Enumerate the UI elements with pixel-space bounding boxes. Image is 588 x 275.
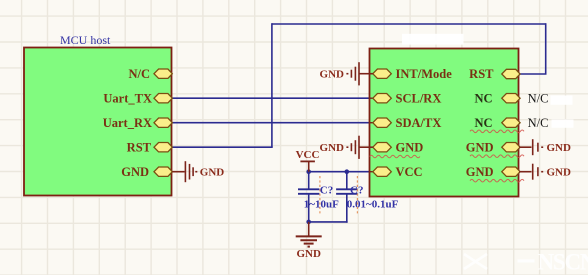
wire net RST: MCU RST pin to vertical	[172, 146, 273, 148]
svg-text:0.01~0.1uF: 0.01~0.1uF	[347, 199, 399, 211]
watermark X	[464, 254, 487, 269]
svg-text:N/C: N/C	[528, 92, 549, 106]
svg-text:GND: GND	[297, 248, 322, 260]
ground at U1 GND right 2	[519, 164, 571, 180]
ground at MCU GND pin	[172, 161, 196, 182]
ground at U1 GND left pin	[320, 136, 373, 159]
svg-text:GND: GND	[200, 167, 225, 179]
svg-text:N/C: N/C	[528, 116, 549, 130]
pin Uart_TX of MCU	[103, 91, 172, 105]
wire net RST: left vertical segment	[271, 23, 273, 147]
capacitor C? 2	[336, 176, 399, 215]
component MCU host block	[24, 33, 172, 196]
svg-text:VCC: VCC	[396, 165, 423, 179]
ground at U1 GND right 1	[519, 139, 571, 155]
wire C2 bottom lead	[346, 194, 348, 223]
wire bottom ground rail	[309, 221, 348, 223]
svg-text:NSCN: NSCN	[538, 250, 588, 275]
pin SCL/RX of U1	[370, 91, 442, 105]
svg-text:C?: C?	[350, 185, 363, 197]
svg-text:1~10uF: 1~10uF	[304, 199, 339, 211]
power port VCC	[296, 149, 320, 172]
wire net RST: right vertical segment	[545, 23, 547, 74]
ground at U1 INT/Mode pin	[320, 62, 373, 85]
svg-text:SDA/TX: SDA/TX	[396, 116, 442, 130]
component U1 sensor block	[370, 49, 519, 197]
ground below capacitors	[296, 222, 322, 260]
pin NC 2 of U1	[470, 116, 524, 133]
pin RST of MCU	[127, 140, 173, 154]
pin SDA/TX of U1	[370, 116, 442, 130]
capacitor C? 1	[298, 176, 339, 215]
svg-text:INT/Mode: INT/Mode	[396, 67, 453, 81]
wire net RST: top horizontal rail	[272, 23, 546, 25]
pin GND of MCU	[121, 165, 172, 179]
wire Uart_TX to SCL/RX	[172, 97, 371, 99]
pin VCC of U1	[370, 165, 423, 179]
svg-text:GND: GND	[396, 140, 424, 154]
svg-text:SCL/RX: SCL/RX	[396, 91, 442, 105]
wire C1 top lead	[308, 172, 310, 190]
white patch over U1 designator	[402, 34, 464, 45]
wire C1 bottom lead	[308, 194, 310, 222]
junction at VCC port	[306, 169, 311, 174]
svg-text:Uart_RX: Uart_RX	[103, 116, 152, 130]
pin N/C of MCU	[128, 67, 172, 81]
junction at ground rail	[306, 220, 311, 225]
pin GND left of U1	[370, 140, 424, 157]
svg-text:RST: RST	[127, 140, 152, 154]
svg-text:GND: GND	[547, 166, 572, 178]
wire C2 top lead	[346, 172, 348, 190]
svg-text:NC: NC	[474, 91, 492, 105]
svg-text:RST: RST	[469, 67, 494, 81]
svg-text:C?: C?	[320, 185, 333, 197]
svg-text:GND: GND	[320, 68, 345, 80]
wire net VCC rail	[309, 171, 371, 173]
pin GND right 1 of U1	[466, 140, 524, 157]
svg-text:VCC: VCC	[296, 149, 320, 161]
svg-text:GND: GND	[466, 140, 494, 154]
wire net RST: chip RST pin to vertical	[519, 73, 547, 75]
wire Uart_RX to SDA/TX	[172, 122, 371, 124]
pin Uart_RX of MCU	[103, 116, 173, 130]
no-connect label N/C 2	[528, 116, 549, 130]
svg-text:NC: NC	[474, 116, 492, 130]
no-connect label N/C 1	[528, 92, 549, 106]
white patch right of N/C 2	[552, 120, 574, 128]
pin RST of U1	[469, 67, 520, 81]
pin INT/Mode of U1	[370, 67, 453, 81]
pin NC 1 of U1	[474, 91, 520, 105]
watermark NSCN	[518, 250, 588, 275]
svg-text:GND: GND	[466, 165, 494, 179]
svg-text:N/C: N/C	[128, 67, 150, 81]
svg-text:GND: GND	[121, 165, 149, 179]
junction at C2 top	[345, 169, 350, 174]
svg-text:Uart_TX: Uart_TX	[103, 91, 152, 105]
svg-text:GND: GND	[320, 142, 345, 154]
pin GND right 2 of U1	[466, 165, 524, 182]
svg-text:MCU host: MCU host	[60, 33, 111, 47]
white patch right of N/C 1	[551, 96, 573, 105]
svg-text:GND: GND	[547, 142, 572, 154]
